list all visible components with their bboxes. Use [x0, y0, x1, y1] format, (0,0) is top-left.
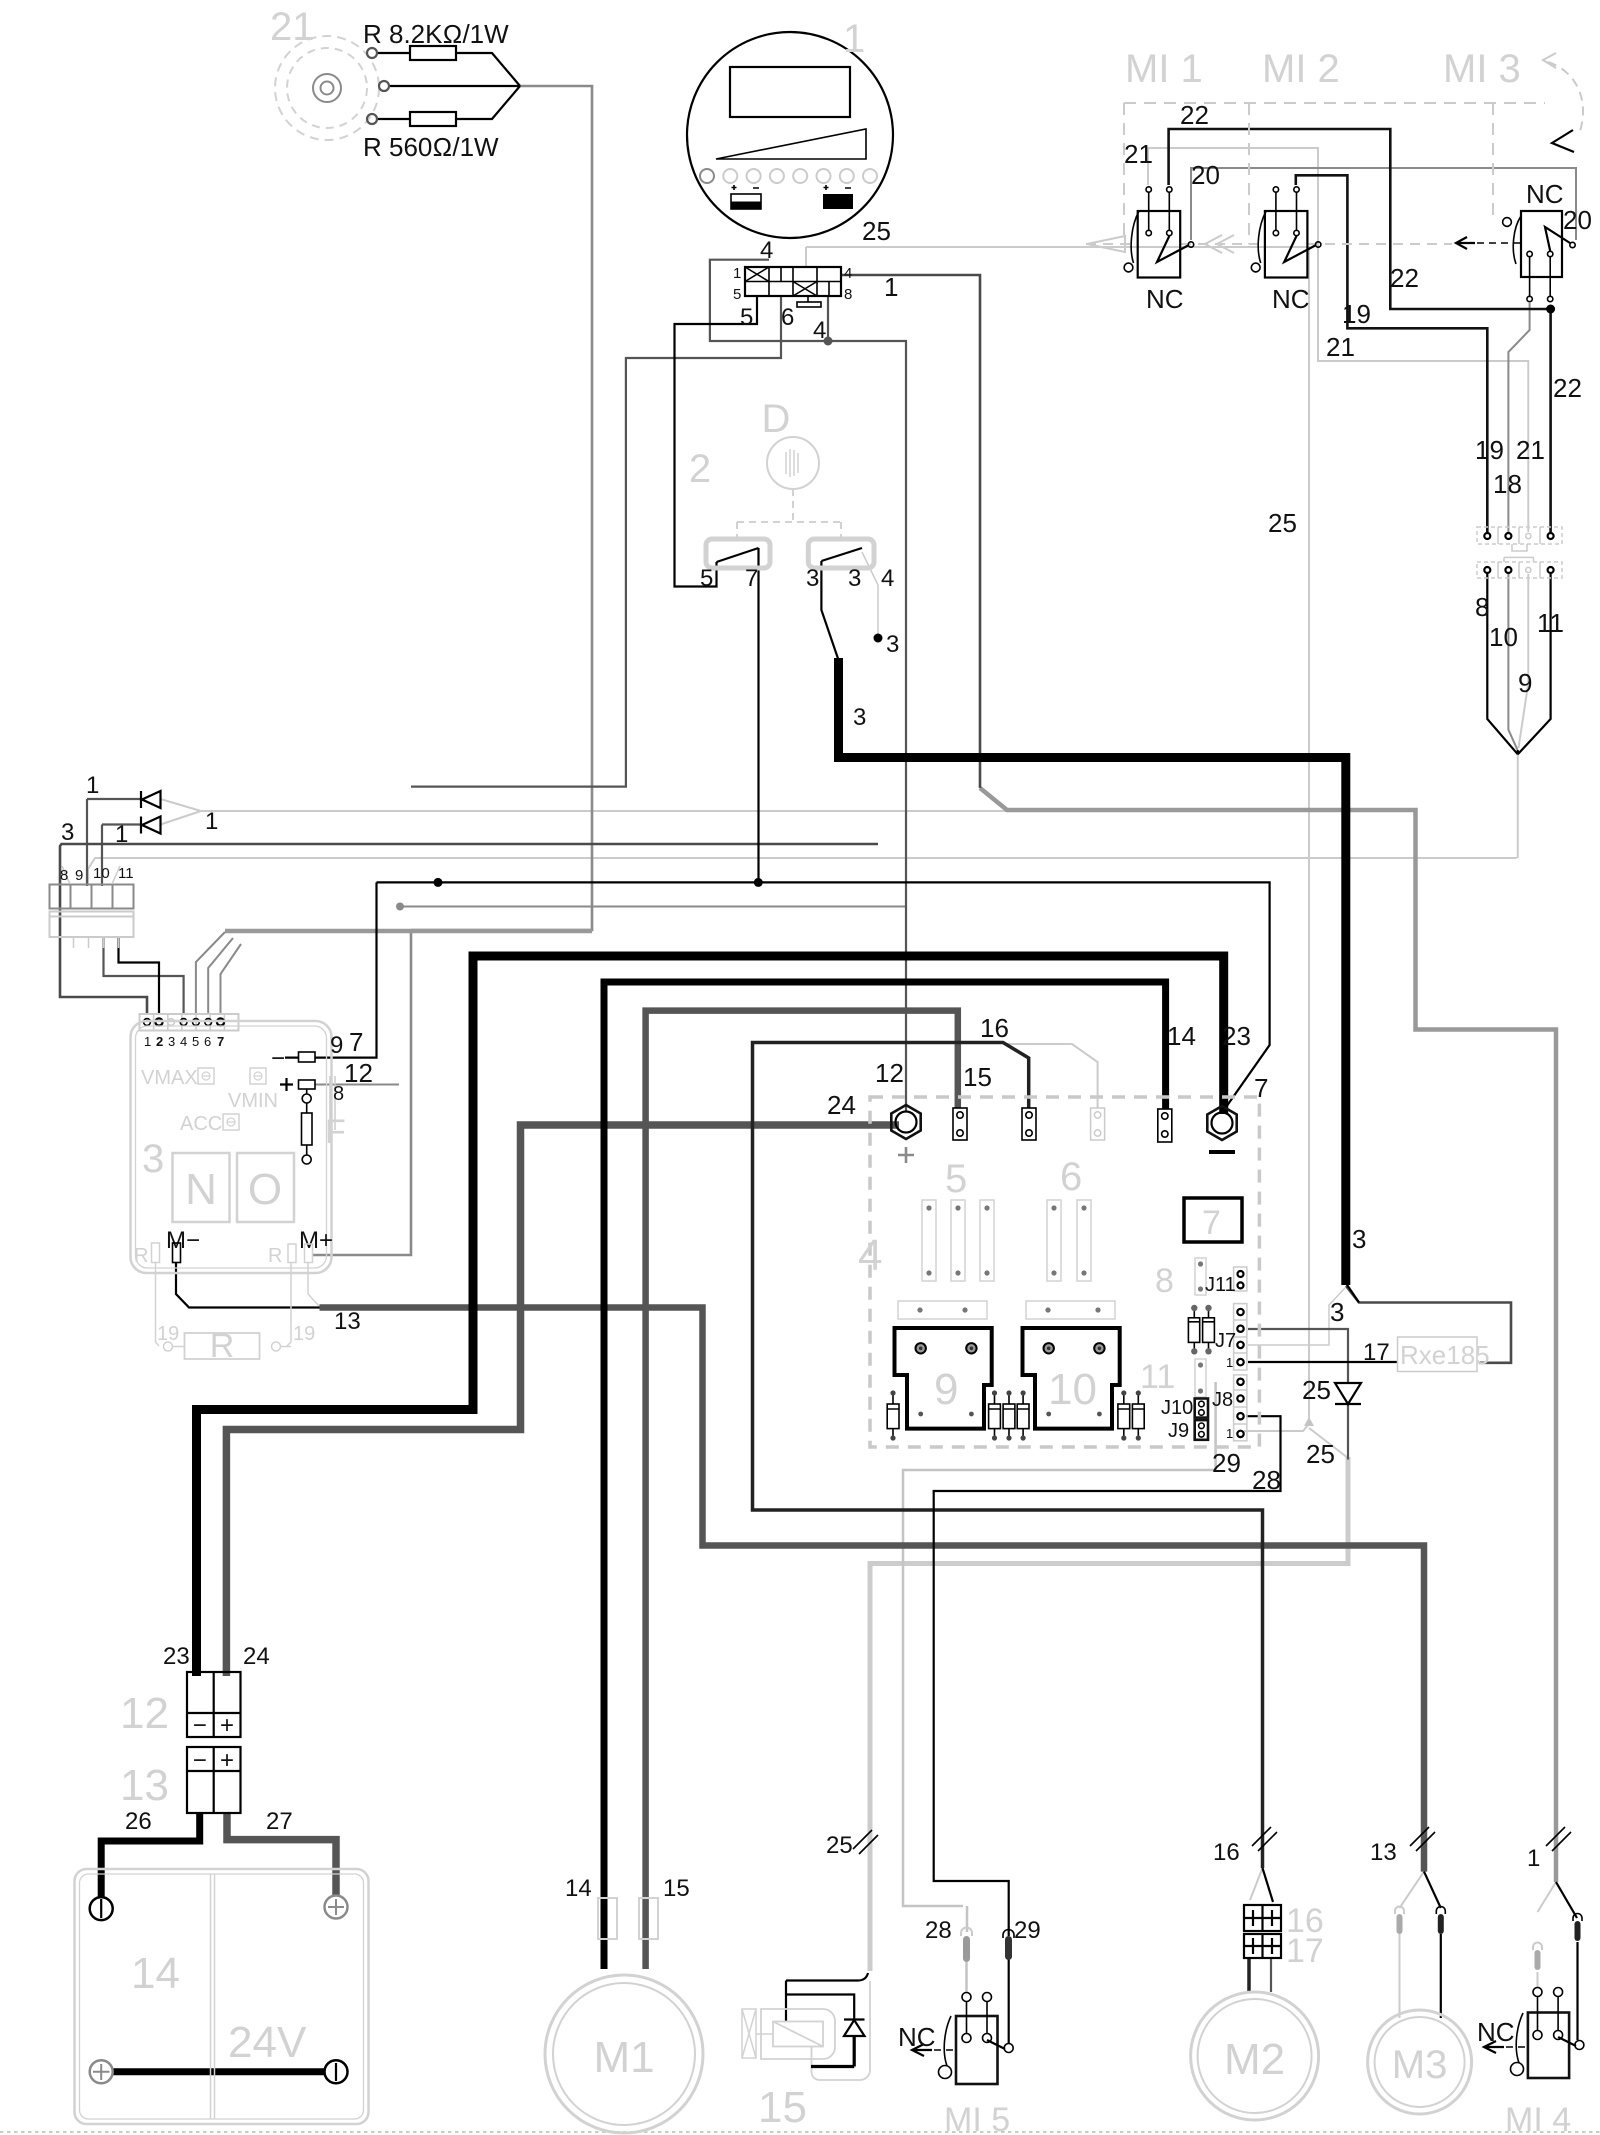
svg-text:NC: NC: [898, 2022, 936, 2052]
svg-text:NC: NC: [1526, 179, 1564, 209]
svg-text:J8: J8: [1212, 1389, 1233, 1411]
svg-text:ACC: ACC: [180, 1113, 222, 1135]
svg-text:MI 4: MI 4: [1505, 2101, 1571, 2135]
svg-text:MI 2: MI 2: [1262, 47, 1340, 91]
svg-text:15: 15: [758, 2083, 807, 2132]
svg-text:3: 3: [886, 631, 899, 658]
svg-text:25: 25: [1302, 1375, 1331, 1405]
svg-text:M−: M−: [166, 1227, 200, 1254]
svg-text:NC: NC: [1272, 284, 1310, 314]
svg-text:9: 9: [1518, 668, 1532, 698]
svg-text:−: −: [271, 1045, 285, 1072]
svg-text:D: D: [762, 397, 791, 441]
svg-text:4: 4: [881, 565, 894, 592]
svg-text:4: 4: [760, 237, 773, 264]
svg-text:1: 1: [843, 17, 865, 61]
svg-text:NC: NC: [1146, 284, 1184, 314]
svg-text:24: 24: [243, 1643, 270, 1670]
svg-text:1: 1: [115, 821, 128, 848]
svg-text:8: 8: [1475, 592, 1489, 622]
svg-text:J7: J7: [1215, 1330, 1236, 1352]
svg-text:7: 7: [1254, 1073, 1268, 1103]
svg-text:25: 25: [1268, 508, 1297, 538]
svg-text:17: 17: [1363, 1339, 1390, 1366]
svg-text:1: 1: [1226, 1355, 1233, 1370]
svg-text:3: 3: [853, 704, 866, 731]
svg-text:8: 8: [60, 867, 68, 884]
svg-text:20: 20: [1563, 205, 1592, 235]
svg-text:28: 28: [1252, 1465, 1281, 1495]
svg-text:15: 15: [963, 1062, 992, 1092]
svg-text:2: 2: [156, 1034, 163, 1049]
svg-text:14: 14: [131, 1949, 180, 1998]
svg-text:M1: M1: [593, 2033, 654, 2082]
svg-text:11: 11: [1140, 1358, 1175, 1396]
svg-text:9: 9: [934, 1365, 958, 1414]
svg-text:3: 3: [1352, 1224, 1366, 1254]
svg-text:12: 12: [344, 1058, 373, 1088]
svg-text:8: 8: [1155, 1262, 1174, 1300]
svg-text:1: 1: [733, 265, 741, 282]
svg-text:R: R: [134, 1245, 148, 1267]
svg-text:16: 16: [980, 1013, 1009, 1043]
svg-text:19: 19: [157, 1323, 179, 1345]
svg-text:4: 4: [180, 1034, 187, 1049]
svg-text:16: 16: [1213, 1839, 1240, 1866]
svg-text:25: 25: [826, 1832, 853, 1859]
svg-text:21: 21: [1326, 332, 1355, 362]
svg-text:F: F: [325, 1113, 346, 1151]
svg-text:5: 5: [733, 286, 741, 303]
svg-text:7: 7: [745, 565, 758, 592]
svg-text:+: +: [220, 1712, 234, 1739]
svg-text:2: 2: [689, 447, 711, 491]
svg-text:1: 1: [1226, 1426, 1233, 1441]
svg-text:20: 20: [1191, 160, 1220, 190]
svg-text:3: 3: [848, 565, 861, 592]
svg-text:29: 29: [1212, 1448, 1241, 1478]
svg-text:6: 6: [204, 1034, 211, 1049]
svg-text:5: 5: [700, 565, 713, 592]
svg-text:M3: M3: [1392, 2043, 1448, 2087]
svg-text:−: −: [193, 1747, 207, 1774]
svg-text:M2: M2: [1224, 2035, 1285, 2084]
svg-text:−: −: [193, 1712, 207, 1739]
svg-text:19: 19: [293, 1323, 315, 1345]
svg-text:6: 6: [1060, 1155, 1082, 1199]
svg-text:R 8.2KΩ/1W: R 8.2KΩ/1W: [363, 19, 509, 49]
svg-text:13: 13: [334, 1308, 361, 1335]
svg-text:14: 14: [1167, 1021, 1196, 1051]
svg-text:VMIN: VMIN: [228, 1090, 278, 1112]
svg-text:J10: J10: [1161, 1397, 1193, 1419]
svg-text:4: 4: [813, 317, 826, 344]
svg-text:22: 22: [1553, 373, 1582, 403]
svg-text:14: 14: [565, 1875, 592, 1902]
svg-text:21: 21: [270, 5, 315, 49]
svg-text:+: +: [220, 1747, 234, 1774]
svg-text:7: 7: [217, 1034, 224, 1049]
svg-text:18: 18: [1493, 469, 1522, 499]
svg-text:11: 11: [118, 865, 134, 882]
svg-text:1: 1: [1527, 1845, 1540, 1872]
svg-text:29: 29: [1014, 1917, 1041, 1944]
svg-text:10: 10: [93, 865, 110, 882]
svg-text:22: 22: [1180, 100, 1209, 130]
svg-text:27: 27: [266, 1808, 293, 1835]
svg-text:3: 3: [142, 1137, 164, 1181]
svg-text:O: O: [248, 1165, 282, 1214]
svg-text:5: 5: [945, 1157, 967, 1201]
svg-text:26: 26: [125, 1808, 152, 1835]
svg-text:7: 7: [349, 1027, 363, 1057]
svg-text:5: 5: [740, 304, 753, 331]
svg-text:25: 25: [1306, 1439, 1335, 1469]
svg-text:1: 1: [884, 272, 898, 302]
svg-text:NC: NC: [1477, 2017, 1515, 2047]
svg-text:4: 4: [858, 1231, 882, 1280]
svg-text:1: 1: [205, 808, 218, 835]
svg-text:28: 28: [925, 1917, 952, 1944]
svg-text:1: 1: [144, 1034, 151, 1049]
svg-text:24V: 24V: [228, 2018, 307, 2067]
svg-text:3: 3: [806, 565, 819, 592]
svg-text:VMAX: VMAX: [141, 1067, 198, 1089]
svg-text:3: 3: [1330, 1297, 1344, 1327]
svg-text:19: 19: [1475, 435, 1504, 465]
svg-text:J11: J11: [1205, 1274, 1236, 1296]
svg-text:5: 5: [192, 1034, 199, 1049]
svg-text:7: 7: [1202, 1204, 1221, 1242]
svg-text:MI 3: MI 3: [1443, 47, 1521, 91]
svg-text:3: 3: [61, 819, 74, 846]
svg-text:MI 5: MI 5: [944, 2101, 1010, 2135]
svg-text:R: R: [210, 1327, 235, 1365]
svg-text:15: 15: [663, 1875, 690, 1902]
svg-text:23: 23: [1222, 1021, 1251, 1051]
svg-text:25: 25: [862, 216, 891, 246]
svg-text:9: 9: [75, 867, 83, 884]
svg-text:6: 6: [781, 304, 794, 331]
svg-text:17: 17: [1286, 1932, 1324, 1970]
svg-text:MI 1: MI 1: [1125, 47, 1203, 91]
svg-text:8: 8: [844, 286, 852, 303]
svg-text:23: 23: [163, 1643, 190, 1670]
svg-text:8: 8: [333, 1083, 344, 1105]
svg-text:R: R: [268, 1245, 282, 1267]
svg-text:1: 1: [86, 772, 99, 799]
svg-text:12: 12: [875, 1058, 904, 1088]
svg-text:10: 10: [1489, 622, 1518, 652]
svg-text:11: 11: [1537, 608, 1564, 638]
svg-text:13: 13: [1370, 1839, 1397, 1866]
svg-text:19: 19: [1342, 299, 1371, 329]
svg-text:12: 12: [120, 1689, 169, 1738]
svg-text:13: 13: [120, 1761, 169, 1810]
svg-text:21: 21: [1516, 435, 1545, 465]
svg-text:21: 21: [1124, 139, 1153, 169]
svg-text:N: N: [185, 1165, 217, 1214]
svg-text:R 560Ω/1W: R 560Ω/1W: [363, 132, 499, 162]
svg-text:3: 3: [168, 1034, 175, 1049]
svg-text:Rxe185: Rxe185: [1400, 1340, 1490, 1370]
svg-text:4: 4: [844, 265, 852, 282]
svg-text:24: 24: [827, 1090, 856, 1120]
svg-text:9: 9: [330, 1032, 343, 1059]
svg-text:22: 22: [1390, 263, 1419, 293]
svg-text:10: 10: [1048, 1365, 1097, 1414]
svg-text:J9: J9: [1168, 1420, 1189, 1442]
